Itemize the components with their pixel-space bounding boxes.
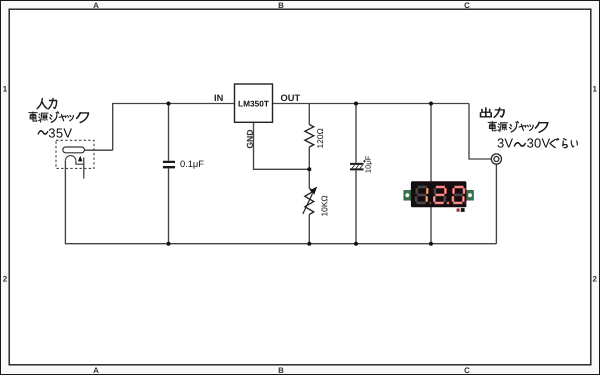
svg-text:30V: 30V	[527, 135, 551, 150]
label 電源ジャック input	[29, 112, 37, 121]
module body	[411, 181, 467, 207]
wire top rail	[113, 104, 469, 151]
capacitor C1 0.1uF plates	[163, 162, 175, 167]
junction node top voltmeter	[429, 102, 433, 106]
C2 plus sign	[363, 160, 366, 163]
C2 polarity hatches	[352, 165, 363, 168]
svg-text:0.1μF: 0.1μF	[180, 159, 204, 169]
output jack J2 connector circles	[491, 154, 501, 164]
right mounting tab	[466, 191, 473, 201]
wire pot top lead	[308, 169, 310, 188]
wire bottom rail	[65, 161, 496, 244]
digit 3 ghost middle	[454, 194, 463, 197]
wire 10uF leads	[355, 104, 357, 244]
svg-text:A: A	[93, 1, 99, 10]
svg-text:120Ω: 120Ω	[315, 128, 325, 148]
svg-text:IN: IN	[214, 93, 224, 103]
small led red	[457, 209, 460, 212]
wire output jack to bottom rail	[495, 164, 497, 244]
svg-text:1: 1	[3, 85, 8, 94]
left mounting tab	[404, 191, 411, 201]
digit 3 lit segments (0)	[453, 187, 464, 203]
junction node bottom pot	[307, 242, 311, 246]
resistor R1 zigzag	[305, 125, 314, 148]
svg-text:A: A	[93, 366, 99, 375]
regulator U1 LM350T box	[235, 84, 273, 122]
potentiometer VR1 zigzag	[305, 189, 314, 215]
wire pot bottom lead	[308, 215, 310, 244]
wire jack tip to rail	[85, 149, 113, 151]
svg-text:10μF: 10μF	[364, 155, 373, 173]
wire 120 ohm top lead	[308, 104, 310, 125]
wire GND pin of U1	[254, 122, 310, 169]
input DC jack J1 dashed box	[56, 140, 94, 168]
junction node top 0.1uF	[167, 102, 171, 106]
junction node bottom voltmeter	[429, 242, 433, 246]
input DC jack arrow	[78, 156, 83, 162]
wire voltmeter vertical	[430, 104, 432, 244]
svg-text:C: C	[464, 366, 470, 375]
svg-text:LM350T: LM350T	[238, 99, 269, 109]
capacitor C2 10uF plates	[350, 164, 364, 170]
svg-text:10KΩ: 10KΩ	[319, 195, 329, 216]
label 電源ジャック output	[488, 122, 496, 131]
svg-text:35V: 35V	[48, 126, 72, 141]
svg-text:B: B	[278, 1, 284, 10]
svg-text:OUT: OUT	[281, 93, 301, 103]
decimal point dim right	[465, 202, 467, 204]
decimal point dim	[429, 202, 431, 204]
svg-text:3V: 3V	[497, 135, 513, 150]
digit 1 ghost	[416, 187, 427, 203]
svg-text:1: 1	[592, 85, 597, 94]
wire 0.1uF top lead	[168, 104, 170, 161]
digit 2 ghost	[435, 188, 445, 202]
label 出力 output	[481, 108, 492, 117]
small component black	[461, 208, 465, 212]
digit 2 lit segments (2)	[434, 187, 445, 203]
svg-text:B: B	[278, 366, 284, 375]
label 入力 input	[37, 99, 47, 109]
svg-text:GND: GND	[245, 129, 255, 148]
junction node bottom 10uF	[354, 242, 358, 246]
wire output drop to jack	[469, 104, 491, 160]
seven segment digits	[416, 187, 464, 203]
svg-text:2: 2	[592, 275, 597, 284]
input DC jack switch link	[76, 161, 84, 164]
svg-text:2: 2	[3, 275, 8, 284]
input DC jack switch pin	[83, 158, 85, 179]
label ~35V input	[38, 131, 48, 134]
decimal point lit	[447, 202, 449, 205]
input DC jack tip pill	[63, 147, 85, 153]
svg-text:C: C	[464, 1, 470, 10]
digit 1 lit segments (1)	[425, 188, 428, 202]
wire 0.1uF bottom lead	[168, 168, 170, 243]
voltmeter module M1	[404, 181, 474, 212]
junction node top 10uF	[354, 102, 358, 106]
junction node bottom 0.1uF	[167, 242, 171, 246]
VR1 arrow	[303, 194, 313, 215]
wire 120 ohm bottom lead	[308, 147, 310, 169]
input DC jack sleeve arc	[65, 156, 76, 161]
junction node adj	[307, 167, 311, 171]
